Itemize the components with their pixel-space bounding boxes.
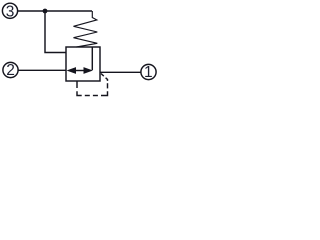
svg-text:2: 2 [6,62,15,79]
svg-text:1: 1 [144,64,153,81]
svg-text:3: 3 [6,3,15,20]
